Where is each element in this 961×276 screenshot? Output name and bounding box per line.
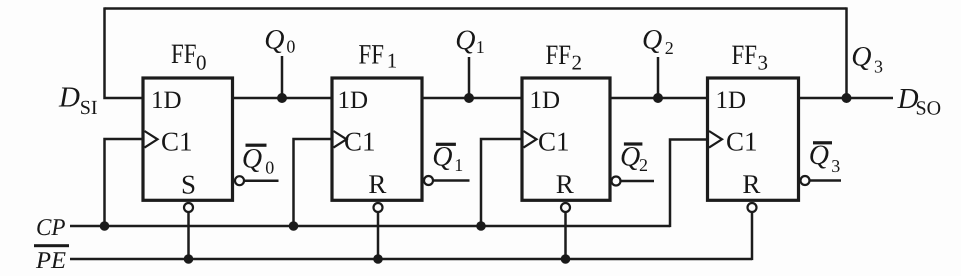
svg-text:1D: 1D — [716, 87, 747, 114]
svg-text:SO: SO — [916, 98, 942, 120]
wire: FF0 S drop to PE rail — [187, 213, 190, 260]
FF1 Q-bar output bubble — [424, 176, 433, 185]
svg-text:2: 2 — [572, 50, 583, 74]
node: CP-FF0 junction — [100, 221, 110, 231]
svg-text:C1: C1 — [538, 127, 570, 157]
svg-text:0: 0 — [265, 158, 274, 178]
wire: Q3 net FF3 output to DSO — [799, 97, 894, 100]
FF3 Q-bar output bubble — [801, 176, 810, 185]
svg-text:FF: FF — [359, 39, 385, 70]
FF0 Q-bar output bubble — [235, 176, 244, 185]
flip-flop FF1 box — [332, 78, 422, 200]
svg-text:R: R — [556, 169, 574, 199]
svg-text:Q: Q — [432, 142, 452, 173]
svg-text:0: 0 — [196, 50, 207, 74]
svg-text:1: 1 — [454, 155, 463, 175]
node: CP-FF1 junction — [289, 221, 299, 231]
wire: Q2 stub up from junction — [657, 57, 660, 98]
FF0 S active-low bubble — [184, 203, 193, 212]
FF1 dynamic clock indicator triangle — [334, 131, 347, 148]
wire: CP riser to FF1 C1 — [294, 139, 333, 226]
wire: Q1 stub up from junction — [468, 57, 471, 98]
node: PE-FF1 junction — [373, 254, 383, 264]
FF0 dynamic clock indicator triangle — [145, 131, 158, 148]
svg-text:PE: PE — [35, 248, 66, 274]
svg-text:FF: FF — [546, 40, 572, 71]
svg-text:Q: Q — [264, 24, 284, 55]
svg-text:2: 2 — [639, 155, 648, 175]
node: PE-FF2 junction — [561, 254, 571, 264]
FF2 dynamic clock indicator triangle — [524, 131, 537, 148]
flip-flop FF0 box — [143, 78, 233, 200]
wire: PE rail — [70, 258, 752, 261]
wire: Q0-bar stub — [244, 179, 279, 182]
svg-text:Q: Q — [809, 140, 829, 171]
svg-text:CP: CP — [36, 215, 66, 241]
wire: feedback right vertical from Q3 node up to top rail — [845, 7, 848, 98]
svg-text:FF: FF — [171, 39, 197, 70]
svg-text:Q: Q — [620, 142, 640, 173]
svg-text:C1: C1 — [161, 127, 193, 157]
wire: Q0 stub up from junction — [281, 56, 284, 98]
wire: Q2 net FF2 output to FF3 1D — [610, 97, 708, 100]
wire: Q3-bar stub — [810, 179, 842, 182]
svg-text:2: 2 — [665, 38, 674, 58]
svg-text:3: 3 — [758, 51, 769, 75]
svg-text:R: R — [742, 169, 760, 199]
wire: Q1-bar stub — [433, 179, 470, 182]
svg-text:1: 1 — [387, 49, 398, 73]
FF1 R active-low bubble — [374, 203, 383, 212]
svg-text:SI: SI — [80, 97, 98, 119]
svg-text:3: 3 — [874, 56, 883, 76]
svg-text:R: R — [368, 169, 386, 199]
flip-flop FF2 box — [522, 78, 610, 200]
svg-text:Q: Q — [851, 42, 871, 73]
FF3 R active-low bubble — [748, 203, 757, 212]
svg-text:C1: C1 — [726, 127, 758, 157]
wire: CP riser to FF0 C1 — [105, 139, 144, 226]
wire: FF3 R drop to PE rail — [751, 213, 754, 261]
wire: Q0 net FF0 output to FF1 1D — [233, 97, 333, 100]
svg-text:Q: Q — [242, 143, 262, 174]
wire: Q1 net FF1 output to FF2 1D — [422, 97, 522, 100]
svg-text:1: 1 — [476, 37, 485, 57]
svg-text:Q: Q — [455, 25, 475, 56]
wire: feedback top rail from DSO node to DSI — [105, 7, 847, 10]
node: PE-FF0 junction — [184, 254, 194, 264]
wire: CP riser to FF3 C1 — [670, 140, 708, 228]
wire: Q2-bar stub — [621, 180, 655, 183]
FF2 Q-bar output bubble — [612, 177, 621, 186]
svg-text:D: D — [58, 82, 80, 114]
wire: FF2 R drop to PE rail — [564, 213, 567, 260]
svg-text:0: 0 — [286, 37, 295, 57]
wire: FF1 R drop to PE rail — [377, 213, 380, 260]
node: Q3/DSO junction — [842, 93, 852, 103]
FF3 dynamic clock indicator triangle — [709, 131, 722, 148]
node: Q0 junction — [277, 93, 287, 103]
svg-text:1D: 1D — [151, 87, 182, 114]
svg-text:1D: 1D — [530, 87, 561, 114]
svg-text:Q: Q — [642, 24, 662, 55]
wire: feedback left vertical down to DSI node, into FF0 1D — [105, 7, 144, 98]
node: Q1 junction — [464, 93, 474, 103]
svg-text:FF: FF — [732, 40, 758, 71]
wire: CP riser to FF2 C1 — [481, 139, 522, 226]
node: Q2 junction — [653, 93, 663, 103]
FF2 R active-low bubble — [561, 203, 570, 212]
wire: CP rail — [70, 225, 670, 228]
svg-text:1D: 1D — [338, 87, 369, 114]
node: CP-FF2 junction — [476, 221, 486, 231]
svg-text:C1: C1 — [344, 127, 376, 157]
flip-flop FF3 box — [708, 78, 799, 200]
svg-text:3: 3 — [831, 156, 840, 176]
svg-text:S: S — [181, 170, 196, 200]
